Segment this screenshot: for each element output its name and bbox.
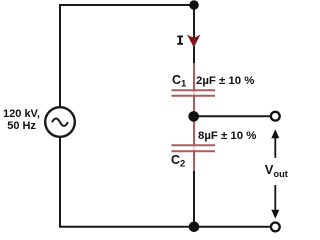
svg-text:2µF ± 10 %: 2µF ± 10 % — [196, 75, 254, 87]
svg-text:120 kV,: 120 kV, — [3, 108, 40, 120]
svg-text:50 Hz: 50 Hz — [7, 120, 36, 132]
svg-text:8µF ± 10 %: 8µF ± 10 % — [198, 130, 256, 142]
